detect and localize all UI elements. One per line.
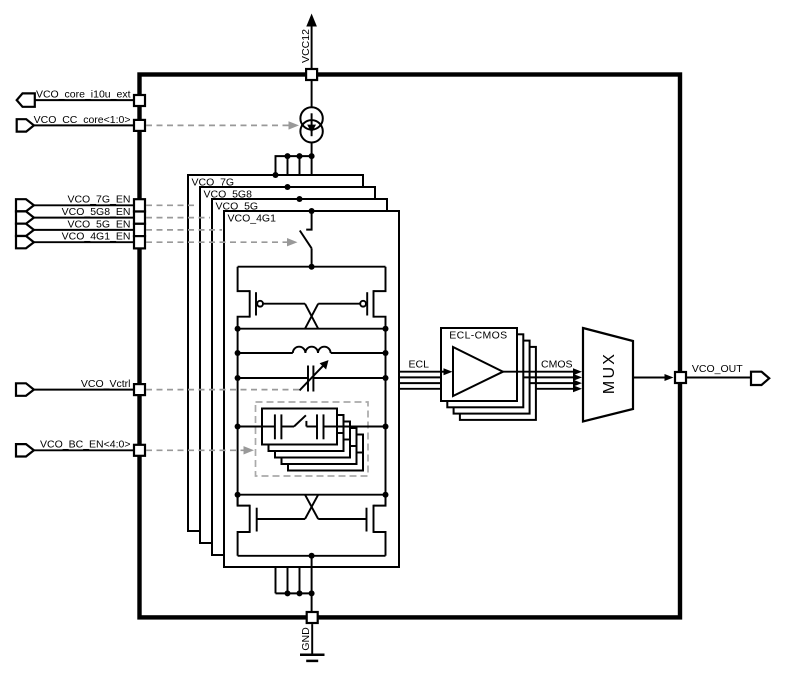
svg-text:VCO_5G8_EN: VCO_5G8_EN	[62, 206, 131, 218]
svg-text:VCO_7G: VCO_7G	[192, 177, 235, 189]
svg-text:VCO_BC_EN<4:0>: VCO_BC_EN<4:0>	[40, 439, 130, 451]
svg-text:VCO_7G_EN: VCO_7G_EN	[67, 194, 130, 206]
svg-text:GND: GND	[300, 627, 312, 651]
svg-text:VCO_core_i10u_ext: VCO_core_i10u_ext	[36, 89, 131, 101]
svg-text:VCC12: VCC12	[300, 29, 312, 63]
svg-text:VCO_5G_EN: VCO_5G_EN	[67, 218, 130, 230]
svg-text:MUX: MUX	[601, 352, 618, 394]
svg-text:VCO_5G: VCO_5G	[216, 201, 259, 213]
svg-text:VCO_CC_core<1:0>: VCO_CC_core<1:0>	[34, 114, 131, 126]
svg-text:VCO_OUT: VCO_OUT	[692, 363, 743, 375]
svg-text:VCO_4G1_EN: VCO_4G1_EN	[62, 231, 131, 243]
svg-text:VCO_4G1: VCO_4G1	[228, 213, 277, 225]
svg-text:VCO_5G8: VCO_5G8	[204, 189, 253, 201]
svg-text:CMOS: CMOS	[541, 359, 573, 371]
svg-text:ECL: ECL	[409, 359, 430, 371]
svg-text:ECL-CMOS: ECL-CMOS	[449, 329, 507, 341]
svg-text:VCO_Vctrl: VCO_Vctrl	[81, 378, 131, 390]
